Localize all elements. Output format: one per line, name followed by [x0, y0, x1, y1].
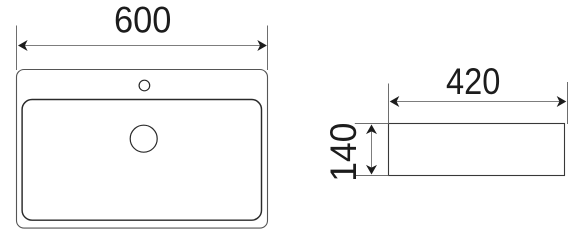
faucet hole: [139, 80, 150, 91]
svg-text:420: 420: [446, 61, 500, 102]
dim 140: bottom extension tick: [355, 175, 389, 177]
dim 140: up arrowhead: [366, 125, 377, 135]
drain hole: [130, 125, 157, 152]
dim 140: dimension line: [371, 126, 373, 174]
dim 420: right extension line: [567, 82, 569, 124]
side view: basin body rectangle: [389, 124, 565, 176]
dim 600: dimension line: [20, 45, 264, 47]
dim 420: right arrowhead: [557, 96, 567, 107]
svg-text:140: 140: [322, 123, 364, 182]
dim 600: right extension line: [267, 26, 269, 71]
dim 420: left extension line: [388, 84, 390, 124]
top view: inner basin: [22, 100, 261, 221]
svg-text:600: 600: [114, 0, 171, 41]
dim 600: right arrowhead: [257, 40, 267, 51]
dim 600: left arrowhead: [18, 40, 28, 51]
top view: sink outer rim: [17, 70, 268, 229]
dim 600: left extension line: [16, 26, 18, 71]
dim 420: left arrowhead: [390, 96, 400, 107]
dim 420: dimension line: [391, 101, 565, 103]
dim 140: top extension tick: [355, 123, 389, 125]
dim 140: down arrowhead: [366, 165, 377, 175]
